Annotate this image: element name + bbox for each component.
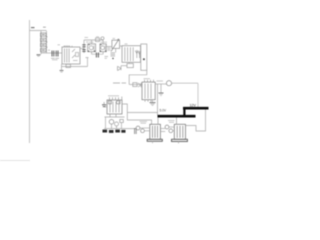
svg-text:5.0V: 5.0V <box>160 108 167 112</box>
svg-text:12V: 12V <box>190 103 197 107</box>
